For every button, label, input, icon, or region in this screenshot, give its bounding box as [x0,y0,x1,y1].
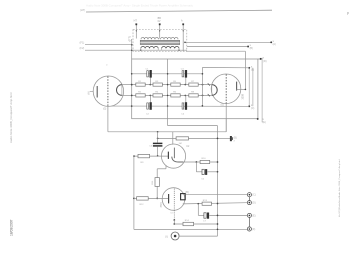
svg-text:(C): (C) [251,107,255,110]
svg-text:Audio Note 300B ConquestT Amp: Audio Note 300B ConquestT Amp - Single E… [86,3,194,7]
svg-text:(B): (B) [234,138,237,140]
svg-text:(A): (A) [87,91,90,94]
svg-text:(F): (F) [252,229,255,231]
svg-text:(F2): (F2) [80,46,85,50]
svg-text:(D): (D) [263,60,267,63]
svg-text:file:///C|/MediaDrive/Audio No: file:///C|/MediaDrive/Audio Note 300B_Co… [338,159,341,217]
svg-text:(E): (E) [252,215,255,217]
svg-text:(HT): (HT) [80,8,85,12]
svg-text:300B: 300B [242,94,245,100]
svg-text:(C): (C) [252,195,255,197]
svg-text:(A): (A) [273,43,276,46]
svg-text:(G): (G) [221,104,225,106]
svg-text:(B): (B) [186,191,189,194]
svg-text:(B): (B) [251,68,254,71]
svg-text:1M: 1M [179,143,182,145]
svg-text:HT: HT [134,20,138,23]
svg-text:(FT): (FT) [128,36,132,42]
svg-text:(F1): (F1) [80,40,85,44]
svg-text:(E): (E) [263,121,266,124]
svg-text:(B): (B) [250,47,253,50]
svg-text:(G): (G) [103,108,107,110]
svg-text:350V: 350V [161,202,163,208]
svg-text:18/03/2007: 18/03/2007 [10,219,14,236]
svg-text:(I): (I) [165,236,168,239]
svg-text:(D): (D) [252,203,255,205]
svg-text:Audio Note 300B_ConquestT Amp.: Audio Note 300B_ConquestT Amp.html [9,92,13,143]
svg-text:p: p [347,11,349,15]
svg-text:0V: 0V [158,20,161,23]
